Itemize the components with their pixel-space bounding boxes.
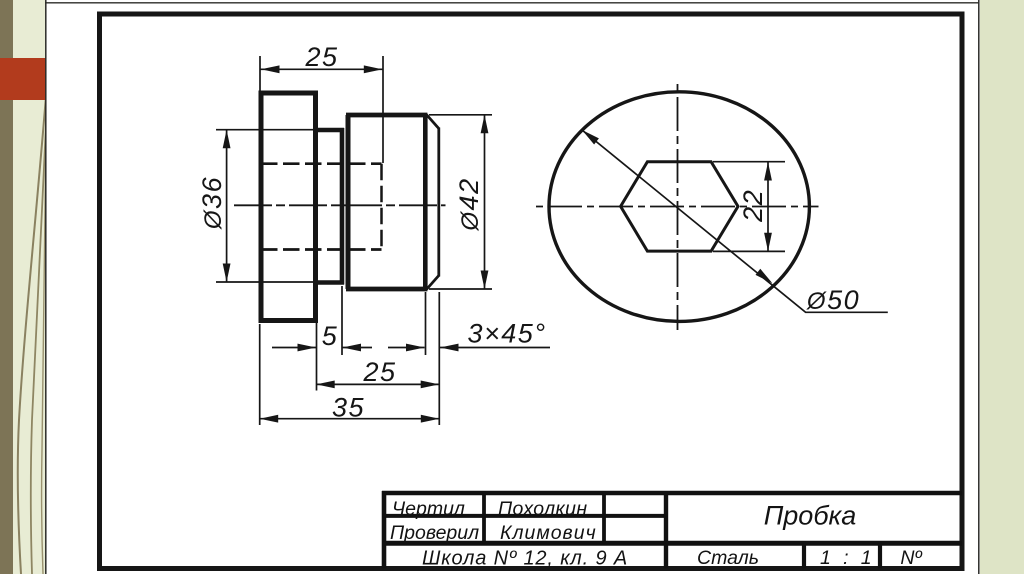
- svg-text:35: 35: [332, 392, 365, 422]
- dim 25 top: dimension line: [260, 68, 383, 70]
- dim 22 extension lines: [713, 161, 785, 163]
- svg-text:Ø36: Ø36: [197, 176, 227, 230]
- hidden hex socket top line (dashed): [261, 162, 382, 165]
- row divider 1: [384, 514, 666, 518]
- left sidebar pale green strip: [0, 0, 46, 574]
- svg-text:3×45°: 3×45°: [467, 319, 546, 349]
- svg-text:Чертил: Чертил: [392, 498, 465, 520]
- hidden socket bottom (vertical dashed): [380, 164, 383, 250]
- svg-text:Школа Nº 12, кл. 9 А: Школа Nº 12, кл. 9 А: [422, 548, 628, 570]
- neck (Ø36 section) bottom edge: [316, 280, 345, 285]
- svg-text:25: 25: [362, 357, 396, 387]
- Ø42 head top edge: [346, 113, 427, 118]
- svg-text:5: 5: [322, 321, 339, 351]
- arrows dim 5 (outside): [298, 344, 317, 352]
- dim 25 bottom: dimension line: [316, 383, 439, 385]
- arrows dim 35: [260, 415, 279, 423]
- Ø50 diagonal diameter line with leader: [582, 130, 888, 312]
- vertical centerline: [677, 84, 679, 330]
- hidden hex socket bottom line (dashed): [261, 248, 382, 251]
- arrow Ø50 lower (on circle, pointing down-right): [756, 269, 773, 284]
- big cell left edge: [664, 493, 668, 569]
- side view axis centerline: [234, 204, 446, 206]
- hex socket: [621, 162, 738, 251]
- row divider 2 (full width): [384, 541, 962, 546]
- arrows dim 25 bottom: [316, 381, 335, 389]
- flange (big left cylinder) outline: [261, 93, 316, 321]
- dim Ø42: extension lines: [429, 114, 492, 116]
- svg-text:Пробка: Пробка: [764, 501, 857, 531]
- left olive band: [0, 0, 13, 574]
- dim 35: dimension line: [260, 418, 440, 420]
- svg-text:Nº: Nº: [900, 547, 922, 569]
- dim 22 dimension line: [767, 162, 769, 252]
- arrows dim 22: [764, 162, 772, 181]
- svg-text:Проверил: Проверил: [390, 522, 479, 544]
- column divider after names: [602, 493, 606, 543]
- row3 divider 1:1/№: [878, 543, 882, 568]
- title block left edge: [382, 491, 387, 569]
- arrows dim Ø36: [223, 130, 231, 149]
- end face line: [437, 128, 440, 277]
- svg-text:Ø42: Ø42: [454, 177, 484, 231]
- svg-text:Похолкин: Похолкин: [498, 498, 587, 520]
- chamfer edge circle line: [423, 114, 428, 290]
- Ø42 head bottom edge: [346, 287, 427, 292]
- outer circle Ø50 (ellipse due to slide stretch): [549, 92, 809, 322]
- dim 25 top: extension lines: [259, 56, 261, 91]
- dim 5: extension line right: [341, 286, 343, 355]
- svg-text:1 : 1: 1 : 1: [820, 547, 875, 569]
- svg-text:Сталь: Сталь: [697, 547, 759, 569]
- red accent rectangle: [0, 58, 46, 100]
- neck right edge: [340, 128, 345, 285]
- left face extension line: [259, 324, 261, 425]
- chamfer top slant: [426, 115, 438, 129]
- svg-text:25: 25: [304, 42, 338, 72]
- dim 5: extension line left: [316, 323, 318, 391]
- svg-text:Ø50: Ø50: [806, 285, 860, 315]
- arrow Ø50 upper (on circle, pointing up-left): [582, 130, 599, 145]
- row3 divider Сталь/1:1: [802, 543, 806, 568]
- dim Ø36: extension lines: [216, 129, 318, 131]
- neck (Ø36 section) top edge: [316, 128, 345, 133]
- dim 5 / 3x45 dimension lines: [272, 347, 316, 349]
- chamfer bottom slant: [426, 276, 438, 290]
- svg-text:22: 22: [738, 189, 768, 223]
- arrows dim Ø42: [481, 115, 489, 134]
- right sidebar pale green strip: [980, 0, 1024, 574]
- dim Ø42: dimension line: [484, 115, 486, 289]
- Ø42 head left edge: [346, 115, 351, 289]
- right face extension line: [438, 292, 440, 425]
- arrows dim 25 top: [261, 65, 280, 73]
- dim Ø36: dimension line: [226, 130, 228, 282]
- chamfer 3x45 extension line left: [425, 292, 427, 355]
- decorative grass curves: [0, 0, 46, 574]
- title block outline top: [382, 491, 962, 496]
- arrows chamfer 3x45 (outside): [406, 344, 425, 352]
- column divider after job titles: [482, 493, 486, 543]
- svg-text:Климович: Климович: [500, 522, 597, 544]
- horizontal centerline: [536, 206, 819, 208]
